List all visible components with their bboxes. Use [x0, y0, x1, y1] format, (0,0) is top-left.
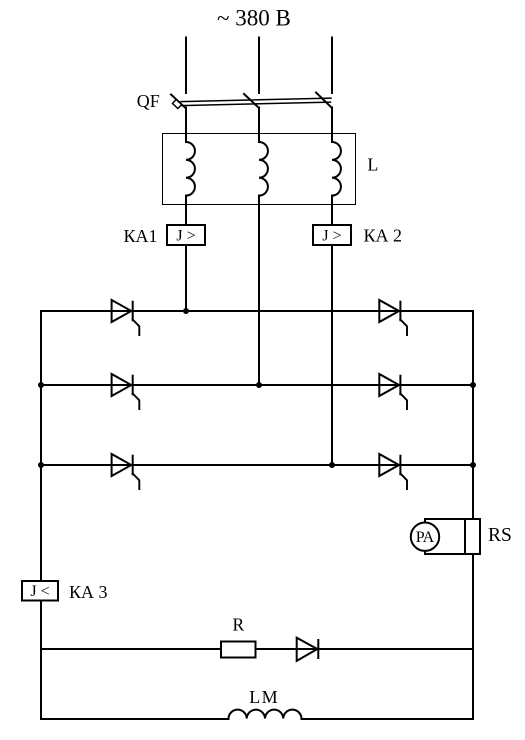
svg-text:RS: RS [488, 525, 512, 546]
svg-text:L: L [367, 154, 378, 174]
svg-text:КА 2: КА 2 [364, 225, 403, 245]
svg-text:QF: QF [137, 91, 160, 111]
svg-text:J <: J < [30, 583, 49, 600]
svg-text:РА: РА [416, 529, 435, 546]
svg-text:~ 380 В: ~ 380 В [217, 6, 291, 31]
svg-text:L M: L M [249, 687, 278, 707]
svg-text:КА 3: КА 3 [69, 582, 108, 602]
svg-text:R: R [233, 614, 245, 634]
svg-text:J >: J > [176, 228, 195, 245]
svg-text:КА1: КА1 [124, 226, 158, 246]
svg-text:J >: J > [322, 228, 341, 245]
